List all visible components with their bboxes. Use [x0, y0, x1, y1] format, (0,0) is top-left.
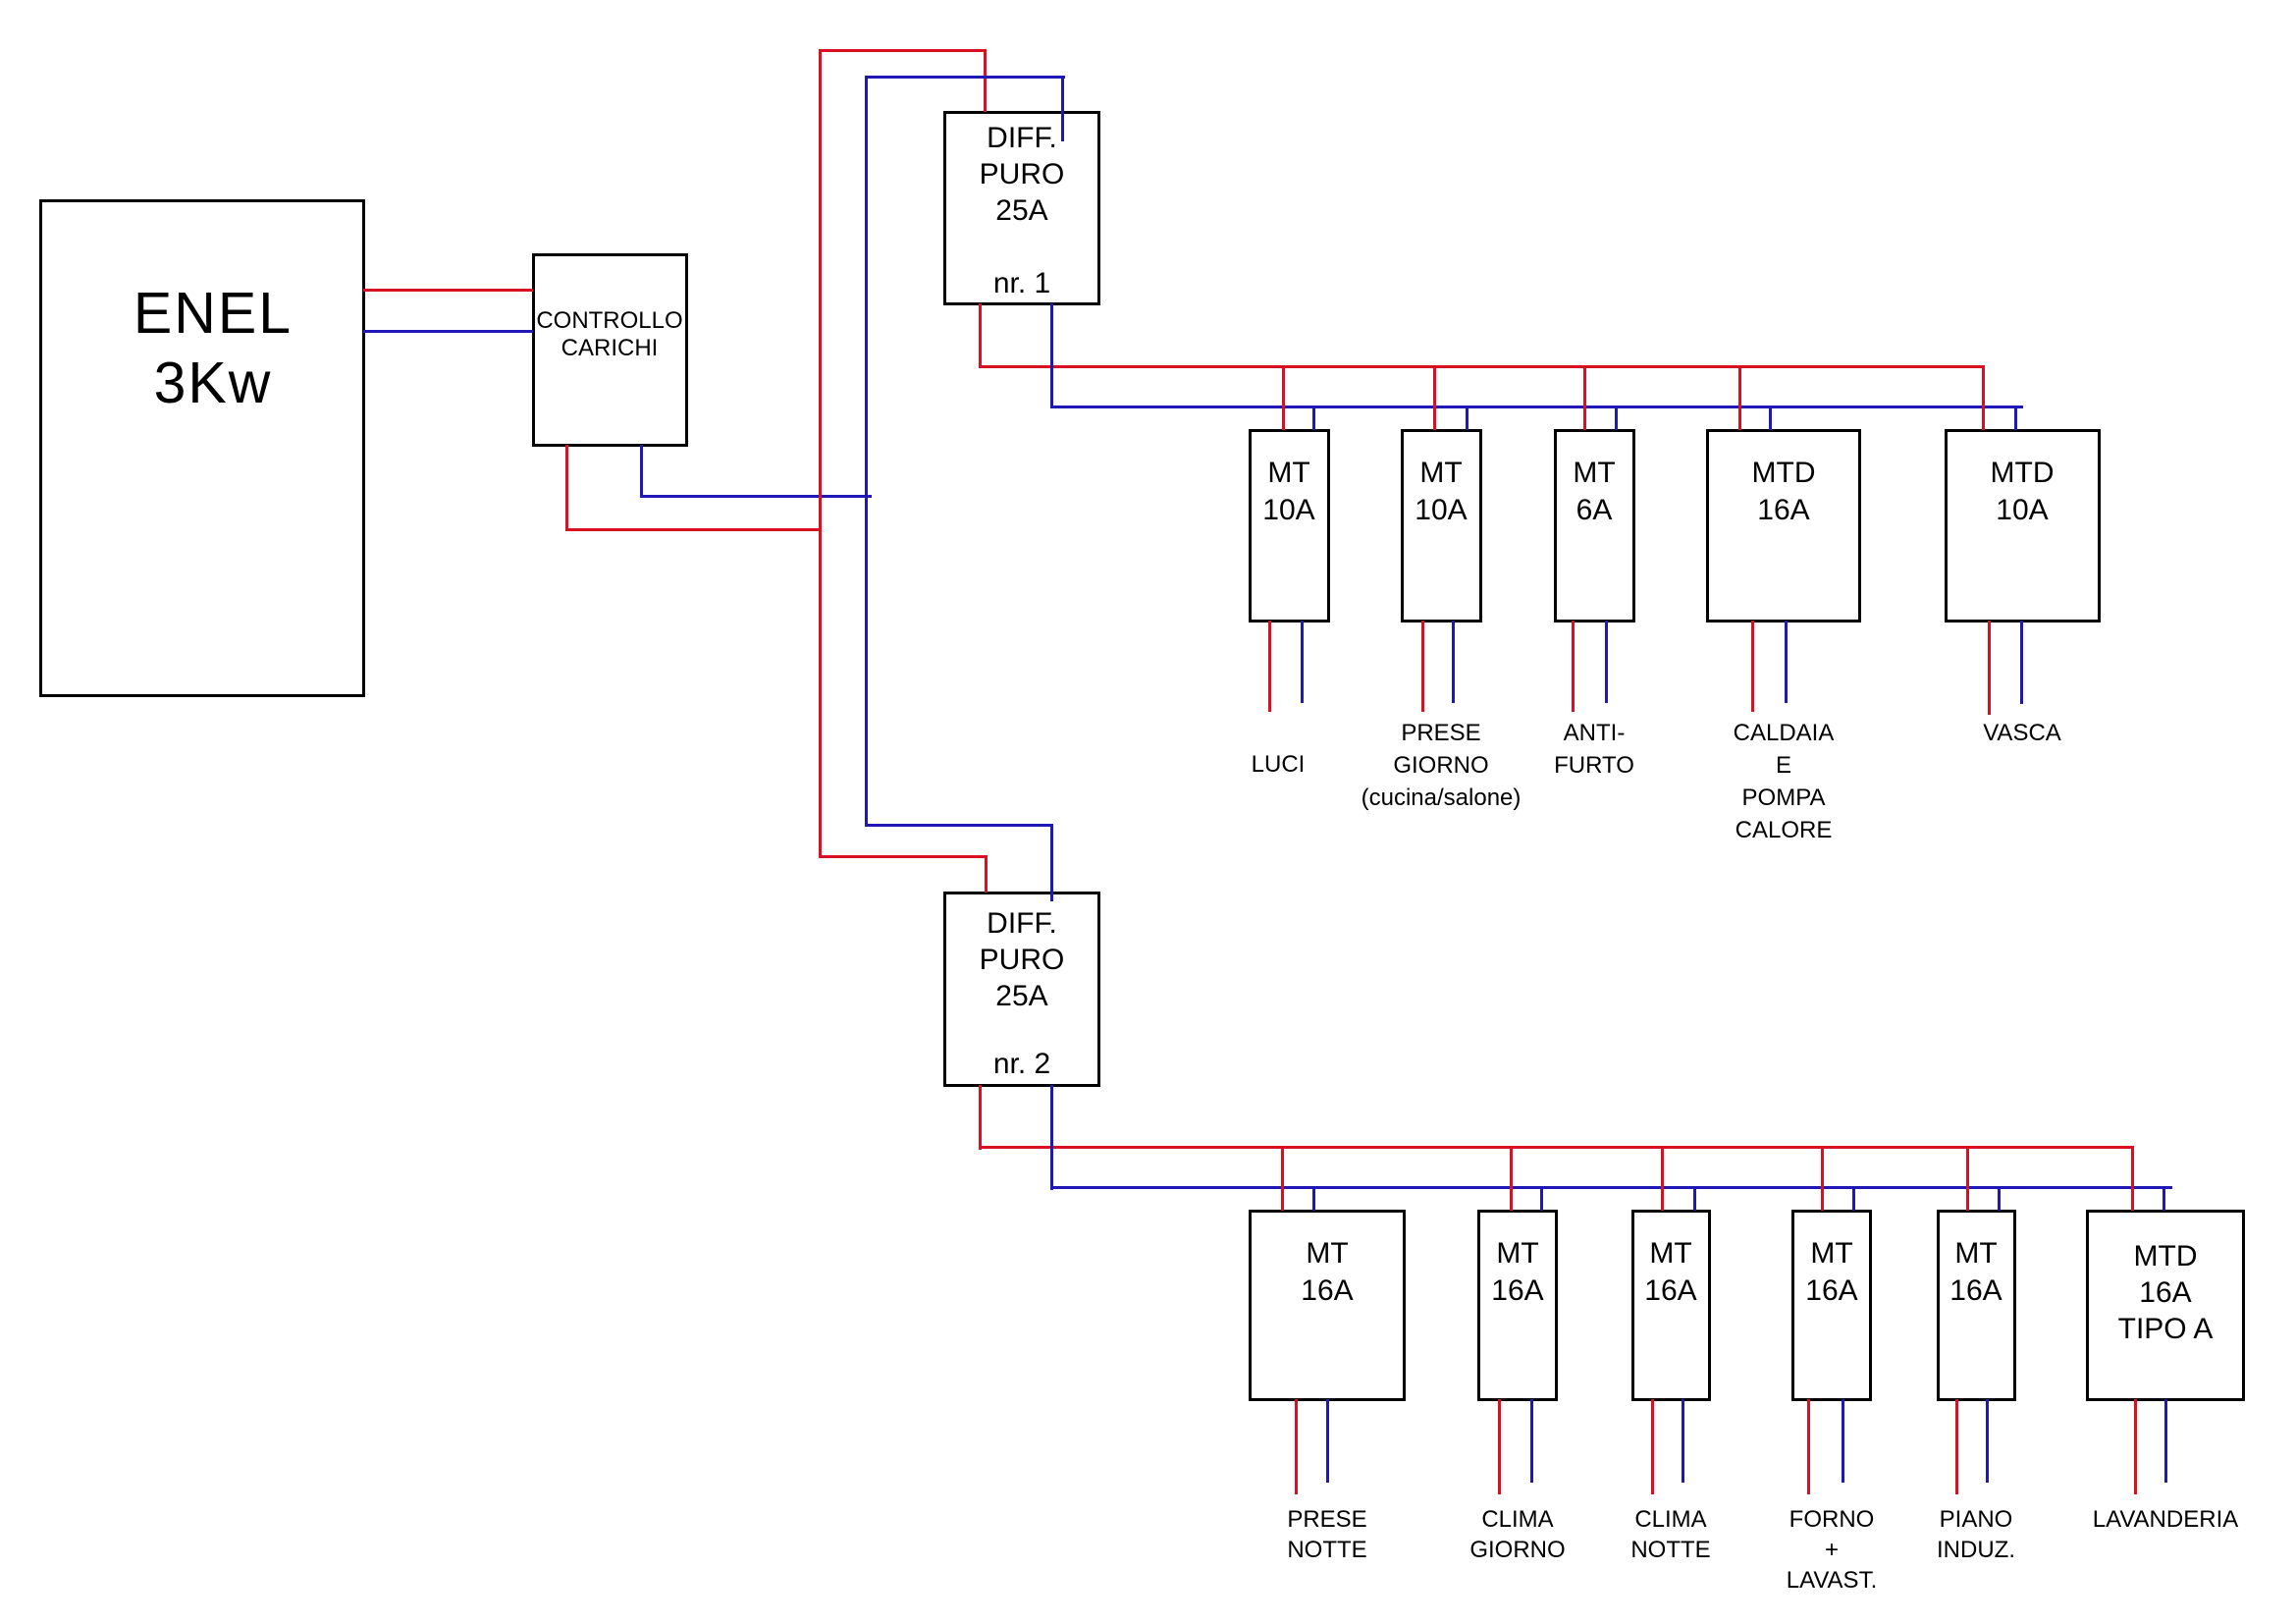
wire red stub bus1 to MT6A ANTIFURTO x1615 [1583, 365, 1586, 430]
breaker MT 16A circuit PRESE NOTTE [1249, 1210, 1406, 1401]
wire red stub bus2 to MT16A PIANO INDUZ x2005 [1966, 1146, 1969, 1211]
wire blue horizontal CONTROLLO to main blue riser y505 [640, 495, 872, 498]
load name LAVANDERIA [2048, 1504, 2283, 1535]
load name PRESE GIORNO cucina salone [1313, 717, 1569, 814]
wire blue bus row2 y1209 [1050, 1186, 2172, 1189]
wire blue stub bus1 to MTD16A CALDAIA x1804 [1769, 406, 1772, 430]
wire blue tail MT16A FORNO down [1842, 1399, 1844, 1483]
wire blue tail MT10A PRESE GIORNO down [1452, 621, 1455, 703]
wire red tail MT16A PIANO INDUZ down [1955, 1399, 1958, 1494]
wire red main riser x835 [819, 49, 822, 858]
wire red drop from CONTROLLO bottom at x577 [565, 445, 568, 530]
wire blue tail MT16A PIANO INDUZ down [1986, 1399, 1989, 1483]
wire red tail MT16A CLIMA GIORNO down [1498, 1399, 1501, 1494]
wire blue feeder riser-to-DIFF2 y840 [865, 824, 1053, 827]
wire red stub bus2 to MT16A PRESE NOTTE x1307 [1281, 1146, 1284, 1211]
wire red top feeder y51 to DIFF nr.1 [819, 49, 987, 52]
label DIFF. PURO 25A of nr.2 [943, 905, 1100, 1014]
wire blue tail MTD16A CALDAIA down [1785, 621, 1788, 703]
wire blue tail MT6A ANTIFURTO down [1605, 621, 1608, 703]
wire blue neutral ENEL to CONTROLLO CARICHI [363, 330, 533, 333]
breaker DIFF. PURO 25A nr. 2 (RCD) [943, 892, 1100, 1087]
wire blue main riser x882 [865, 76, 868, 827]
breaker MTD 16A circuit CALDAIA E POMPA CALORE [1706, 429, 1861, 623]
wire red tail MT10A PRESE GIORNO down [1421, 621, 1424, 712]
wire blue drop into DIFF nr.1 top x1082 [1061, 76, 1064, 141]
wire red drop into DIFF nr.2 top x1004 [985, 855, 988, 893]
wire blue stub bus2 to MT16A FORNO x1889 [1852, 1186, 1855, 1211]
wire blue bus row1 end drop into MTD 10A x2053 [2014, 406, 2017, 430]
label DIFF. PURO 25A of nr.1 [943, 120, 1100, 229]
wire red tail MT16A PRESE NOTTE down [1295, 1399, 1298, 1494]
label MT 16A of CLIMA NOTTE breaker [1631, 1235, 1711, 1310]
wire red bus row1 y373 [979, 365, 1985, 368]
wire red stub bus2 to MT16A FORNO x1857 [1821, 1146, 1824, 1211]
label MT 16A of PRESE NOTTE breaker [1249, 1235, 1406, 1310]
wire blue output DIFF nr.2 bottom x1071 [1050, 1085, 1053, 1190]
wire blue top feeder y78 to DIFF nr.1 [865, 76, 1065, 79]
load name PRESE NOTTE [1229, 1504, 1425, 1565]
wire blue tail MT16A CLIMA NOTTE down [1682, 1399, 1684, 1483]
wire red bus row2 y1168 [979, 1146, 2134, 1149]
box CONTROLLO CARICHI load-control relay [532, 253, 688, 447]
label nr. 2 [943, 1046, 1100, 1082]
breaker MT 16A circuit CLIMA GIORNO [1477, 1210, 1558, 1401]
wire red tail MT10A LUCI down [1268, 621, 1271, 712]
wire blue stub bus1 to MT6A ANTIFURTO x1647 [1615, 406, 1618, 430]
wire blue bus row1 y414 [1050, 406, 2023, 408]
wire blue stub bus2 to MT16A CLIMA NOTTE x1727 [1693, 1186, 1696, 1211]
box ENEL 3Kw supply meter [39, 199, 365, 697]
wire red stub bus1 to MT10A LUCI x1308 [1282, 365, 1285, 430]
wire red bus row1 end drop into MTD 10A x2020 [1982, 365, 1985, 430]
wire red drop into DIFF nr.1 top x1003 [984, 49, 987, 112]
breaker MT 16A circuit CLIMA NOTTE [1631, 1210, 1711, 1401]
breaker MT 10A circuit PRESE GIORNO [1401, 429, 1482, 623]
wire red tail MT16A CLIMA NOTTE down [1651, 1399, 1654, 1494]
breaker MTD 10A circuit VASCA [1945, 429, 2101, 623]
wire red output DIFF nr.2 bottom x998 [979, 1085, 982, 1150]
load name VASCA [1924, 717, 2120, 749]
label nr. 1 [943, 265, 1100, 301]
load name FORNO LAVAST [1734, 1504, 1930, 1596]
breaker MT 16A circuit PIANO INDUZIONE [1937, 1210, 2016, 1401]
load name PIANO INDUZ [1878, 1504, 2074, 1565]
wire blue tail MT10A LUCI down [1301, 621, 1304, 703]
wire red tail MT6A ANTIFURTO down [1572, 621, 1575, 712]
wire blue output DIFF nr.1 bottom x1071 [1050, 303, 1053, 408]
wire red feeder riser-to-DIFF2 y873 [819, 855, 988, 858]
load name CLIMA GIORNO [1419, 1504, 1616, 1565]
load name ANTI-FURTO [1496, 717, 1692, 782]
wire red stub bus2 to MT16A CLIMA NOTTE x1694 [1661, 1146, 1664, 1211]
breaker MT 16A circuit FORNO LAVASTOVIGLIE [1791, 1210, 1872, 1401]
breaker MT 10A circuit LUCI [1249, 429, 1330, 623]
wire blue stub bus1 to MT10A PRESE GIORNO x1495 [1466, 406, 1468, 430]
breaker MTD 16A TIPO A circuit LAVANDERIA [2086, 1210, 2245, 1401]
wire red line ENEL to CONTROLLO CARICHI [363, 289, 533, 292]
wire blue stub bus2 to MT16A CLIMA GIORNO x1571 [1540, 1186, 1543, 1211]
wire blue stub bus1 to MT10A LUCI x1339 [1312, 406, 1315, 430]
label MTD 16A of CALDAIA breaker [1706, 455, 1861, 529]
breaker MT 6A circuit ANTIFURTO [1554, 429, 1635, 623]
label ENEL 3Kw [66, 279, 360, 418]
label CONTROLLO CARICHI [462, 307, 757, 362]
label MT 16A of FORNO breaker [1791, 1235, 1872, 1310]
wire blue bus row2 end drop into MTD 16A TIPO A x2204 [2163, 1186, 2165, 1211]
wire blue tail MTD16A LAVANDERIA down [2164, 1399, 2167, 1483]
load name CLIMA NOTTE [1573, 1504, 1769, 1565]
wire blue tail MT16A CLIMA GIORNO down [1530, 1399, 1533, 1483]
wire red tail MT16A FORNO down [1807, 1399, 1810, 1494]
load name CALDAIA E POMPA CALORE [1676, 717, 1892, 846]
label MT 6A of ANTIFURTO breaker [1554, 455, 1635, 529]
wire red tail MTD10A VASCA down [1988, 621, 1991, 715]
label MT 16A of PIANO INDUZ breaker [1937, 1235, 2016, 1310]
wire blue drop from CONTROLLO bottom at x653 [640, 445, 643, 497]
wire blue stub bus2 to MT16A PIANO INDUZ x2037 [1998, 1186, 2001, 1211]
wire blue tail MT16A PRESE NOTTE down [1326, 1399, 1329, 1483]
breaker DIFF. PURO 25A nr. 1 (RCD) [943, 111, 1100, 305]
wire red bus row2 end drop into MTD 16A TIPO A x2172 [2131, 1146, 2134, 1211]
wire blue tail MTD10A VASCA down [2020, 621, 2023, 704]
wire blue stub bus2 to MT16A PRESE NOTTE x1339 [1312, 1186, 1315, 1211]
label MT 10A of LUCI breaker [1249, 455, 1330, 529]
label MT 10A of PRESE GIORNO breaker [1401, 455, 1482, 529]
wire red tail MTD16A CALDAIA down [1751, 621, 1754, 712]
label MTD 16A TIPO A of LAVANDERIA breaker [2086, 1238, 2245, 1347]
label MT 16A of CLIMA GIORNO breaker [1477, 1235, 1558, 1310]
wire red tail MTD16A LAVANDERIA down [2134, 1399, 2137, 1494]
label MTD 10A of VASCA breaker [1945, 455, 2101, 529]
wire red horizontal CONTROLLO to main red riser y539 [565, 528, 822, 531]
wire red stub bus2 to MT16A CLIMA GIORNO x1540 [1510, 1146, 1513, 1211]
wire blue drop into DIFF nr.2 top x1071 [1050, 824, 1053, 901]
load name LUCI [1180, 748, 1376, 781]
wire red stub bus1 to MT10A PRESE GIORNO x1462 [1433, 365, 1436, 430]
wire red output DIFF nr.1 bottom x998 [979, 303, 982, 368]
wire red stub bus1 to MTD16A CALDAIA x1773 [1738, 365, 1741, 430]
